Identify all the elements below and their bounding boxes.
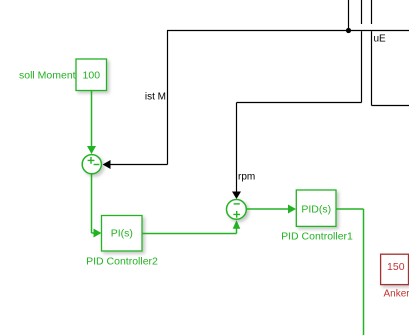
wire: rpm drop into Sum2 with arrowhead <box>232 103 241 200</box>
svg-text:uE: uE <box>374 34 387 45</box>
svg-text:PID Controller1: PID Controller1 <box>281 231 353 243</box>
constant block "100" (soll Moment source) <box>76 59 107 91</box>
svg-text:PID(s): PID(s) <box>301 203 331 215</box>
wire: PI(s) output right then up into Sum2 with arrowhead <box>142 220 240 233</box>
svg-text:soll Moment: soll Moment <box>19 70 76 82</box>
sum junction Sum1 (+ top, - right) <box>82 155 101 174</box>
svg-text:PI(s): PI(s) <box>111 228 133 240</box>
svg-text:100: 100 <box>83 70 101 82</box>
wire: uE horizontal to right edge <box>372 105 409 107</box>
svg-text:PID Controller2: PID Controller2 <box>86 256 158 268</box>
svg-text:rpm: rpm <box>238 172 255 183</box>
svg-text:ist M: ist M <box>145 92 166 103</box>
wire: uE vertical from top edge (with crossing gap at trunk) <box>371 0 373 106</box>
block PID(s) (PID Controller1) <box>296 190 336 226</box>
constant block "150" (Ankerstrom source) <box>381 254 409 284</box>
block PI(s) (PID Controller2) <box>102 216 143 252</box>
wire: Sum2 output right into PID(s) with arrowhead <box>247 205 297 214</box>
wire: PID(s) output right then down to bottom edge <box>336 209 364 335</box>
wire: ist M horizontal trunk (top) <box>167 30 409 32</box>
svg-text:150: 150 <box>387 261 405 273</box>
node: junction dot on ist M trunk <box>346 28 351 33</box>
wire: rpm horizontal segment <box>237 102 362 104</box>
wire: ist M source drop from top edge <box>348 0 350 31</box>
wire: Sum1 output down then right into PI(s) with arrowhead <box>92 175 102 238</box>
sum junction Sum2 (- top, + bottom) <box>227 200 247 220</box>
wire: rpm vertical from top edge (with crossing gap at trunk) <box>361 0 363 103</box>
wire: 100 block down to Sum1 with green arrowhead <box>87 91 96 155</box>
svg-text:Ankerstrom: Ankerstrom <box>384 289 409 300</box>
wire: ist M vertical down segment <box>167 31 169 165</box>
wire: ist M into Sum1 with arrowhead <box>103 160 168 169</box>
